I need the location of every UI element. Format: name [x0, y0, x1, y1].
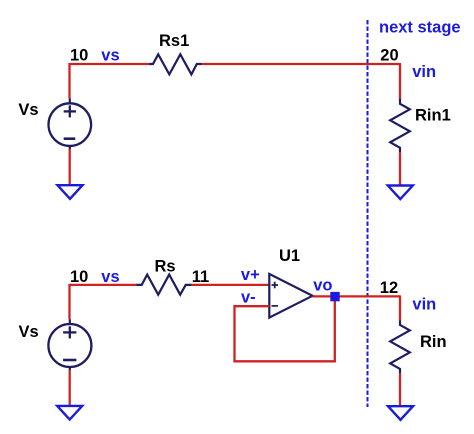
wire node 10 horizontal (bottom, vs to Rs) — [70, 284, 137, 286]
svg-text:11: 11 — [192, 268, 209, 286]
voltage source Vs (bottom) — [48, 319, 91, 370]
svg-text:vo: vo — [313, 277, 332, 295]
svg-text:Rin: Rin — [420, 333, 447, 351]
svg-text:v-: v- — [241, 289, 256, 307]
junction node marker (vo) — [330, 292, 339, 301]
resistor Rin — [390, 321, 410, 374]
wire node 12 vertical (corner down to Rin) — [399, 295, 401, 320]
svg-text:10: 10 — [70, 47, 88, 65]
ground (bottom left) — [57, 406, 82, 420]
resistor Rs1 — [149, 54, 202, 74]
op-amp U1 — [269, 274, 312, 318]
wire node 20 horizontal (Rs1 to corner) — [202, 63, 401, 65]
svg-text:next stage: next stage — [379, 19, 461, 37]
resistor Rin1 — [390, 98, 410, 152]
wire node 11 (Rs to op-amp v+) — [192, 284, 270, 286]
svg-text:vin: vin — [412, 295, 436, 313]
wire node 20 vertical (corner down to Rin1) — [399, 63, 401, 98]
svg-text:Rin1: Rin1 — [415, 106, 451, 124]
svg-text:10: 10 — [70, 268, 88, 286]
wire node 10 vertical (bottom, down to Vs source) — [68, 284, 70, 319]
ground (bottom right) — [388, 406, 413, 420]
resistor Rs — [136, 275, 191, 295]
svg-text:vs: vs — [101, 268, 119, 286]
ground (top right) — [388, 186, 413, 200]
svg-text:vin: vin — [412, 63, 436, 81]
wire vo output (op-amp to node 12 corner) — [313, 295, 401, 297]
svg-text:v+: v+ — [241, 266, 260, 284]
svg-text:Rs1: Rs1 — [159, 32, 189, 50]
dashed stage-boundary line — [367, 20, 369, 407]
wire Vs bottom to ground (bottom left) — [69, 370, 71, 406]
wire Vs bottom to ground (top left) — [69, 149, 71, 186]
svg-text:Vs: Vs — [18, 101, 38, 119]
svg-text:Rs: Rs — [155, 257, 176, 275]
svg-text:U1: U1 — [279, 247, 300, 265]
wire node 10 vertical (top, down to Vs source) — [68, 63, 70, 98]
svg-text:vs: vs — [101, 47, 119, 65]
wire Rin to ground (bottom right) — [399, 374, 401, 407]
ground (top left) — [58, 185, 83, 199]
wire node 10 horizontal (top, vs to Rs1) — [70, 63, 149, 65]
svg-text:Vs: Vs — [19, 323, 39, 341]
wire Rin1 to ground (top right) — [399, 152, 401, 185]
svg-text:12: 12 — [380, 279, 398, 297]
voltage source Vs (top) — [49, 98, 92, 149]
feedback wire (v- to output loop) — [235, 297, 335, 361]
svg-text:20: 20 — [380, 46, 398, 64]
